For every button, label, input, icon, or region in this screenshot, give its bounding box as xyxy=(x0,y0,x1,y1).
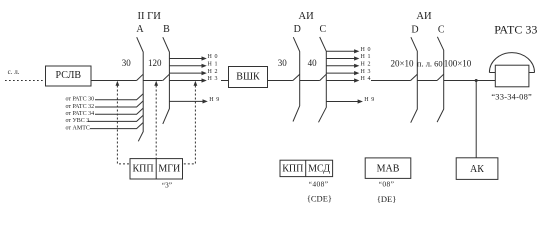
telephone handset dome xyxy=(489,53,534,73)
svg-text:II ГИ: II ГИ xyxy=(138,11,162,22)
svg-text:п. л. 60: п. л. 60 xyxy=(417,59,443,69)
switch D (АИ field 2) xyxy=(411,37,418,123)
arrow up control 2 xyxy=(154,81,158,86)
wire: trunk from АМТС xyxy=(90,123,143,129)
svg-text:АИ: АИ xyxy=(416,11,432,22)
svg-text:30: 30 xyxy=(122,58,132,68)
arrow up control 1 xyxy=(116,81,120,86)
box ВШК xyxy=(229,67,268,88)
svg-text:Н 2: Н 2 xyxy=(208,69,219,75)
wire: jog into switch А xyxy=(137,74,144,80)
box РСЛВ xyxy=(46,66,92,86)
svg-text:МАВ: МАВ xyxy=(377,163,400,174)
wire: switch А to switch В xyxy=(143,80,162,82)
svg-text:Н 1: Н 1 xyxy=(361,54,372,60)
svg-text:от РАТС 30: от РАТС 30 xyxy=(66,97,95,103)
svg-text:КПП: КПП xyxy=(282,164,303,175)
box АК xyxy=(456,158,498,180)
arrow Н0 (АИ) xyxy=(354,49,359,53)
wire: incoming subscriber line (dashed) xyxy=(5,80,46,82)
wire: С fan Н3 xyxy=(326,72,354,74)
svg-text:120: 120 xyxy=(148,58,162,68)
svg-text:МСД: МСД xyxy=(308,164,330,175)
telephone body xyxy=(495,65,529,87)
svg-text:D: D xyxy=(411,25,418,36)
wire: dashed control РСЛВ-КПП xyxy=(117,86,130,164)
svg-text:С: С xyxy=(319,24,326,35)
wire: В fan Н2 xyxy=(169,72,201,74)
switch С (АИ field 1) xyxy=(319,37,327,122)
svg-text:С: С xyxy=(438,25,445,36)
svg-text:с. л.: с. л. xyxy=(8,68,20,76)
svg-text:{DE}: {DE} xyxy=(377,194,397,204)
arrow Н3 (II ГИ) xyxy=(202,78,207,82)
arrow Н2 (II ГИ) xyxy=(202,71,207,75)
wire: dashed control МГИ right xyxy=(183,86,196,164)
svg-text:АК: АК xyxy=(470,164,484,175)
arrow up control 3 xyxy=(194,81,198,86)
wire: D to C (АИ) xyxy=(300,80,320,82)
wire: Н3 label gap resume to ВШК xyxy=(221,80,229,82)
box КПП/МСД xyxy=(280,160,333,176)
svg-text:“08”: “08” xyxy=(379,179,395,188)
svg-text:40: 40 xyxy=(308,58,318,68)
wire: jog into switch C2 xyxy=(437,74,444,80)
svg-text:Н 1: Н 1 xyxy=(208,62,219,68)
wire: В fan Н0 xyxy=(169,58,201,60)
wire: dashed control МГИ to field xyxy=(155,86,157,159)
wire: jog into switch C xyxy=(320,74,327,80)
arrow Н1 (АИ) xyxy=(354,56,359,60)
wire: С fan Н1 xyxy=(326,58,354,60)
wire: jog into switch В xyxy=(163,74,170,80)
svg-text:100×10: 100×10 xyxy=(444,59,472,69)
wire: direction Н3 from В (main path) xyxy=(169,80,201,82)
svg-text:Н 0: Н 0 xyxy=(361,47,372,53)
wire: jog into switch D (АИ 2) xyxy=(411,74,418,80)
junction node to АК xyxy=(475,79,478,82)
wire: trunk from УВС 3 xyxy=(88,115,144,121)
wire: РСЛВ to stage A xyxy=(91,80,137,82)
wire: С fan Н2 xyxy=(326,65,354,67)
arrow Н0 (II ГИ) xyxy=(202,56,207,60)
svg-text:Н 3: Н 3 xyxy=(361,69,372,75)
switch С (АИ field 2) xyxy=(437,37,444,122)
wire: line down to АК xyxy=(475,81,477,158)
svg-text:ВШК: ВШК xyxy=(236,72,260,83)
svg-text:D: D xyxy=(294,24,301,35)
box МАВ xyxy=(365,158,411,179)
svg-text:от РАТС 32: от РАТС 32 xyxy=(66,104,95,110)
svg-text:от УВС 3: от УВС 3 xyxy=(66,118,90,124)
svg-text:{CDE}: {CDE} xyxy=(307,194,332,204)
arrow Н9 (АИ) xyxy=(358,99,363,103)
svg-text:Н 3: Н 3 xyxy=(208,76,219,82)
wire: D2 to C2 xyxy=(417,80,437,82)
arrow Н9 (II ГИ) xyxy=(203,99,208,103)
wire: С direction Н9 xyxy=(326,101,358,103)
wire: C2 to telephone set xyxy=(444,80,496,82)
wire: trunk from РАТС 30 xyxy=(95,94,143,100)
wire: ВШК to switch D (АИ) xyxy=(268,80,293,82)
svg-text:“33-34-08”: “33-34-08” xyxy=(491,92,532,102)
svg-text:МГИ: МГИ xyxy=(158,163,180,174)
arrow Н4 (АИ) xyxy=(354,78,359,82)
svg-text:“3”: “3” xyxy=(162,181,172,190)
svg-text:от АМТС: от АМТС xyxy=(66,125,90,131)
svg-text:Н 4: Н 4 xyxy=(361,76,372,82)
svg-text:Н 9: Н 9 xyxy=(364,97,375,103)
wire: В direction Н9 xyxy=(169,100,202,102)
svg-text:Н 2: Н 2 xyxy=(361,62,372,68)
wire: trunk from РАТС 32 xyxy=(95,101,143,107)
wire: С fan Н0 xyxy=(326,50,354,52)
switch В (II ГИ field) xyxy=(163,37,170,124)
svg-text:“408”: “408” xyxy=(309,179,329,188)
svg-text:РАТС 33: РАТС 33 xyxy=(494,22,537,36)
wire: trunk from РАТС 34 xyxy=(95,108,143,114)
switch D (АИ field 1) xyxy=(293,37,300,121)
switch А (II ГИ field) xyxy=(137,37,144,141)
svg-text:КПП: КПП xyxy=(132,163,153,174)
svg-text:20×10: 20×10 xyxy=(390,59,414,69)
svg-text:В: В xyxy=(163,24,170,35)
svg-text:30: 30 xyxy=(278,58,288,68)
wire: jog into switch D xyxy=(293,74,300,80)
svg-text:РСЛВ: РСЛВ xyxy=(56,70,82,81)
arrow Н1 (II ГИ) xyxy=(202,64,207,68)
arrow Н2 (АИ) xyxy=(354,64,359,68)
arrow Н3 (АИ) xyxy=(354,71,359,75)
svg-text:АИ: АИ xyxy=(299,11,315,22)
box КПП/МГИ xyxy=(130,159,183,179)
svg-text:Н 9: Н 9 xyxy=(209,97,220,103)
svg-text:А: А xyxy=(136,24,144,35)
svg-text:от РАТС 34: от РАТС 34 xyxy=(66,111,95,117)
svg-text:Н 0: Н 0 xyxy=(208,54,219,60)
wire: В fan Н1 xyxy=(169,65,201,67)
wire: direction Н4 from C (main path) xyxy=(326,80,354,82)
wire: Н4 label gap resume to second АИ xyxy=(371,80,411,82)
